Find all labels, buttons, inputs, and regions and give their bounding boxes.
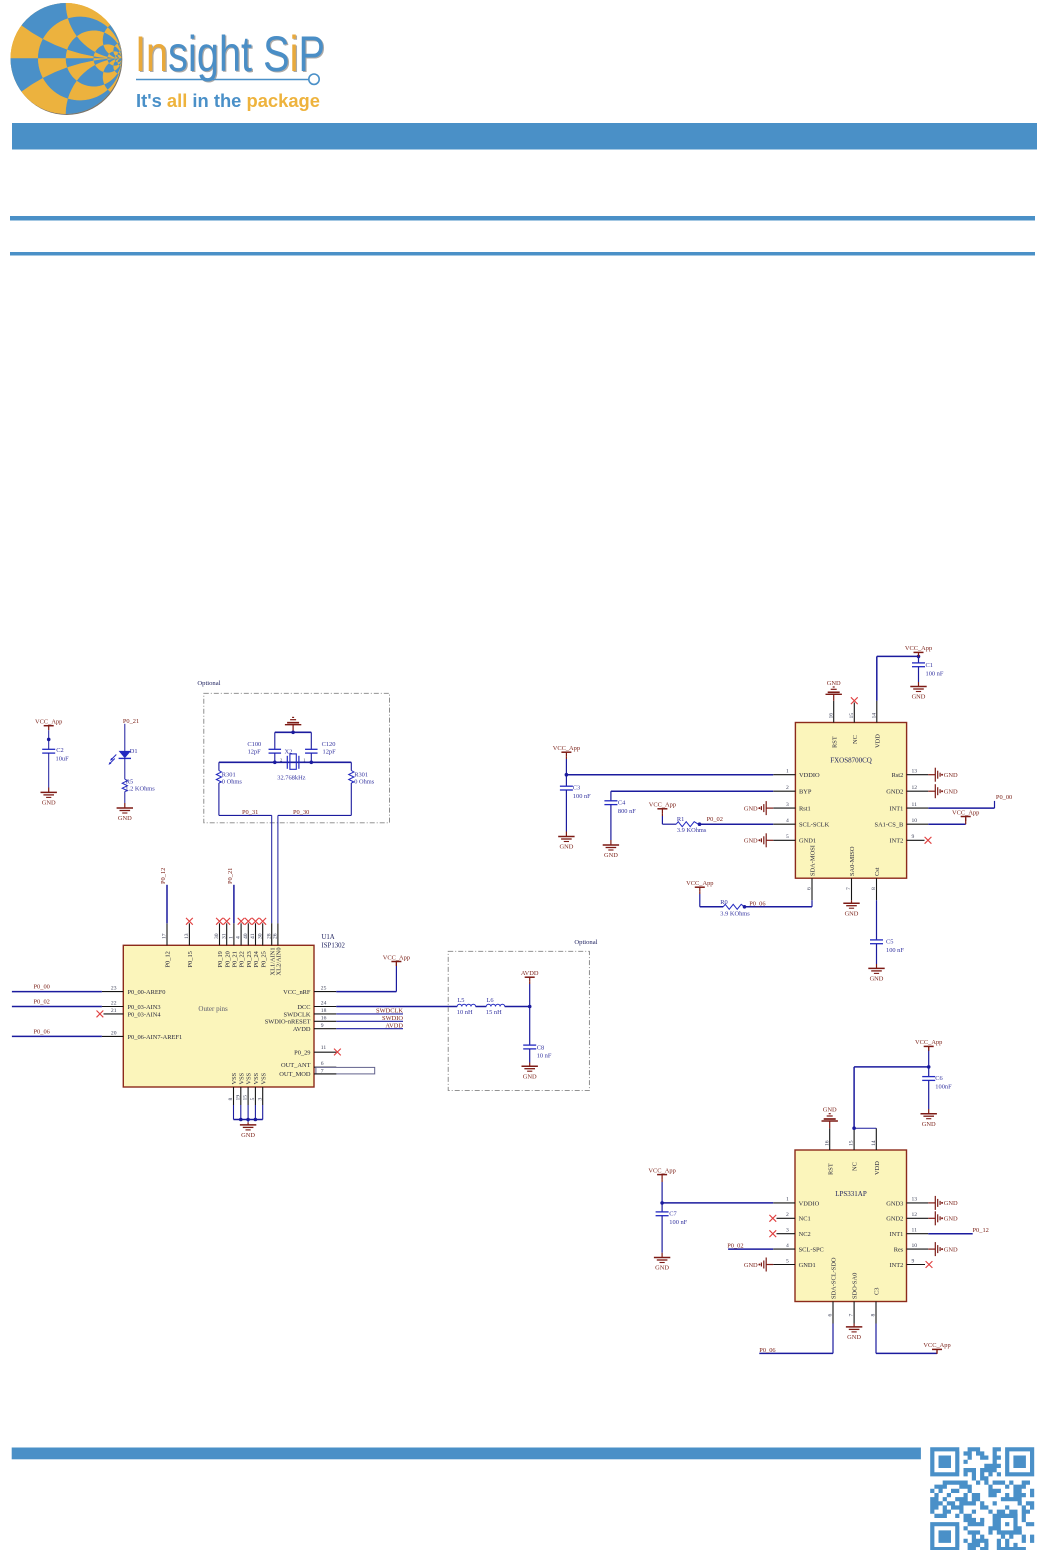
wire R1 to SCL-SCLK (698, 823, 773, 825)
ground sideways right (LPS GND2) (928, 1217, 935, 1219)
wire CS to VCC_App (875, 1324, 877, 1354)
svg-text:VCC_App: VCC_App (553, 745, 580, 752)
svg-text:3: 3 (786, 1228, 789, 1234)
FXOS pin 16 RST (833, 701, 835, 723)
svg-text:VCC_App: VCC_App (649, 802, 676, 809)
wire VCC_App to C2 (48, 730, 50, 749)
FXOS pin 6 SDA-MOSI (811, 878, 813, 900)
wire SA1-CS_B to VCC_App (928, 823, 965, 825)
wire crystal top rail (275, 731, 312, 733)
wire P0_21 to D1 (124, 724, 126, 751)
wire net SWDIO (336, 1020, 403, 1022)
op-amp U1A ISP1302 body (123, 945, 314, 1087)
svg-text:VDDIO: VDDIO (799, 1200, 820, 1207)
ground sideways right (GND3) (928, 1202, 935, 1204)
svg-text:17: 17 (162, 933, 168, 939)
inductor L5 (457, 1004, 475, 1006)
svg-text:13: 13 (912, 1197, 918, 1203)
svg-text:VCC_App: VCC_App (923, 1342, 950, 1349)
svg-text:15: 15 (243, 1095, 249, 1101)
FXOS pin 12 GND2 (907, 790, 929, 792)
svg-text:1: 1 (786, 769, 789, 775)
wire D1 to R5 (124, 758, 126, 779)
junction main rail left (273, 761, 277, 765)
svg-text:P0_29: P0_29 (294, 1050, 310, 1057)
svg-text:6: 6 (807, 887, 813, 890)
svg-text:OUT_ANT: OUT_ANT (281, 1062, 311, 1069)
svg-text:VCC_App: VCC_App (383, 954, 410, 961)
U1A pin 22 P0_03-AIN3 (102, 1006, 123, 1008)
QR code (930, 1447, 1034, 1550)
svg-text:GND: GND (42, 800, 56, 807)
ground GND (U1A VSS) (240, 1124, 256, 1126)
svg-text:19: 19 (235, 1095, 241, 1101)
ground flipped (RST) (826, 693, 842, 695)
wire NC up to C6 rail (853, 1067, 855, 1128)
junction R1 right (698, 822, 702, 826)
svg-text:Optional: Optional (574, 939, 597, 946)
svg-text:R301: R301 (354, 771, 368, 778)
sensor IC FXOS8700CQ body (795, 723, 906, 879)
svg-text:GND: GND (944, 1216, 958, 1223)
svg-text:GND: GND (604, 852, 618, 859)
svg-text:9: 9 (912, 1258, 915, 1264)
antenna matching rectangle (316, 1067, 375, 1074)
wire DCC to inductors (336, 1006, 457, 1008)
wire bottom rail left (P0_31) (219, 814, 272, 816)
power flag VCC_App (R0) (695, 886, 705, 888)
svg-text:32.768kHz: 32.768kHz (277, 775, 305, 782)
svg-text:3: 3 (786, 802, 789, 808)
svg-text:4: 4 (236, 936, 242, 939)
capacitor C2 (42, 748, 55, 750)
svg-text:22: 22 (111, 1001, 117, 1007)
svg-text:GND: GND (744, 805, 758, 812)
capacitor C3 (560, 785, 573, 787)
svg-text:GND: GND (241, 1132, 255, 1139)
power flag VCC_App (C3) (561, 751, 571, 753)
svg-text:P0_00-AREF0: P0_00-AREF0 (128, 989, 166, 996)
power flag AVDD (525, 976, 535, 978)
wire C2 to GND (48, 753, 50, 787)
svg-text:SWDCLK: SWDCLK (284, 1011, 311, 1018)
svg-text:R1: R1 (677, 816, 684, 823)
svg-text:AVDD: AVDD (293, 1026, 311, 1033)
svg-text:C4: C4 (618, 799, 626, 806)
ground GND (C1) (910, 686, 926, 688)
U1A top pin 30 P0_25 (262, 923, 264, 945)
wire crystal main rail (219, 761, 351, 763)
capacitor C100 (269, 748, 282, 750)
svg-text:DCC: DCC (297, 1004, 310, 1011)
wire C7 to GND (661, 1216, 663, 1253)
svg-text:30: 30 (257, 933, 263, 939)
wire VSS 15 down (247, 1105, 249, 1120)
wire net P0_02 (12, 1006, 102, 1008)
no-connect X pin 11 (334, 1049, 341, 1056)
LPS pin 14 VDD (875, 1128, 877, 1150)
ground GND (C2 branch) (41, 791, 57, 793)
svg-text:23: 23 (111, 986, 117, 992)
FXOS pin 9 INT2 (907, 839, 925, 841)
svg-text:GND: GND (944, 1200, 958, 1207)
svg-text:3.9 KOhms: 3.9 KOhms (677, 827, 707, 834)
wire VDDIO to VCC_App/C3 (566, 774, 773, 776)
svg-text:OUT_MOD: OUT_MOD (279, 1071, 311, 1078)
svg-text:P0_25: P0_25 (260, 951, 267, 967)
crystal X2 (286, 756, 288, 769)
optional dashed box (filter) (448, 951, 589, 1090)
power flag VCC_App (R1) (657, 808, 667, 810)
junction crystal top (291, 731, 295, 735)
U1A pin 6 OUT_ANT (314, 1066, 336, 1068)
svg-text:C1: C1 (926, 662, 933, 669)
capacitor C1 (912, 662, 925, 664)
svg-text:INT1: INT1 (889, 806, 903, 813)
wire top rail to C120 (310, 732, 312, 749)
U1A pin 11 P0_29 (314, 1051, 336, 1053)
svg-text:VCC_nRF: VCC_nRF (283, 989, 311, 996)
svg-text:SDA-MOSI: SDA-MOSI (810, 845, 817, 876)
svg-text:P0_12: P0_12 (165, 951, 172, 967)
ground sideways right (GND2) (928, 790, 935, 792)
U1A top pin 31 P0_20 (226, 923, 228, 945)
svg-text:8: 8 (871, 887, 877, 890)
wire net P0_00 (12, 991, 102, 993)
svg-text:11: 11 (321, 1045, 327, 1051)
footer blue bar (12, 1448, 921, 1460)
svg-text:10 nH: 10 nH (457, 1009, 473, 1016)
svg-text:P0_06: P0_06 (749, 901, 765, 908)
svg-text:X2: X2 (285, 749, 293, 756)
FXOS pin 1 VDDIO (773, 774, 795, 776)
svg-text:P0_21: P0_21 (232, 951, 239, 967)
svg-text:8: 8 (228, 1098, 234, 1101)
inductor L6 (486, 1004, 504, 1006)
FXOS pin 10 SA1-CS_B (907, 823, 929, 825)
U1A pin 9 AVDD (314, 1028, 336, 1030)
svg-text:VDD: VDD (874, 734, 881, 748)
wire VSS 8 down (233, 1105, 235, 1120)
U1A bottom pin 19 VSS (240, 1087, 242, 1105)
junction VSS 2 (246, 1118, 250, 1122)
svg-text:VSS: VSS (238, 1072, 245, 1084)
svg-text:30: 30 (214, 933, 220, 939)
svg-text:P0_00: P0_00 (996, 794, 1012, 801)
LPS pin 2 NC1 (777, 1217, 796, 1219)
svg-text:VCC_App: VCC_App (952, 809, 979, 816)
U1A bottom pin 3 VSS (262, 1087, 264, 1105)
wire junction to C3 (565, 775, 567, 787)
U1A pin 20 P0_06-AIN7-AREF1 (102, 1035, 123, 1037)
svg-text:C3: C3 (573, 785, 580, 792)
wire P0_12 up (166, 885, 168, 924)
wire VCC_App down to C6 rail (928, 1046, 930, 1049)
svg-text:8: 8 (871, 1314, 877, 1317)
svg-text:P0_30: P0_30 (293, 809, 309, 816)
no-connect X (NC2) (769, 1230, 776, 1237)
svg-text:SCL-SCLK: SCL-SCLK (799, 822, 830, 829)
svg-text:VCC_App: VCC_App (905, 645, 932, 652)
LPS pin 16 RST (829, 1128, 831, 1150)
resistor R1 (676, 822, 698, 827)
logo underline end circle (309, 74, 319, 84)
svg-text:D1: D1 (130, 748, 138, 755)
svg-text:100 nF: 100 nF (926, 671, 944, 678)
ground sideways (Rst1) (766, 807, 773, 809)
svg-text:INT2: INT2 (889, 838, 903, 845)
svg-text:Res: Res (894, 1247, 904, 1254)
FXOS pin 13 Rst2 (907, 774, 929, 776)
svg-text:SWDIO: SWDIO (382, 1015, 403, 1022)
wire C5 to GND (876, 944, 878, 964)
LPS pin 6 SDA-SCL-SDO (832, 1302, 834, 1324)
svg-text:GND: GND (847, 1334, 861, 1341)
svg-text:P0_02: P0_02 (707, 816, 723, 823)
FXOS pin 7 SA0-MISO (851, 878, 853, 900)
svg-text:P0_06-AIN7-AREF1: P0_06-AIN7-AREF1 (128, 1034, 183, 1041)
wire junction to C1 (918, 656, 920, 663)
svg-text:RST: RST (827, 1163, 834, 1175)
LPS pin 8 CS (875, 1302, 877, 1324)
wire VSS bus to GND (247, 1120, 249, 1123)
svg-text:10: 10 (912, 1243, 918, 1249)
U1A top pin 1 P0_21 (233, 923, 235, 945)
FXOS pin 8 Cst (876, 878, 878, 900)
svg-text:BYP: BYP (799, 789, 812, 796)
svg-text:P0_03-AIN3: P0_03-AIN3 (128, 1004, 161, 1011)
svg-text:GND2: GND2 (886, 1216, 903, 1223)
svg-text:P0_24: P0_24 (253, 950, 260, 967)
wire net P0_06 (12, 1035, 102, 1037)
svg-text:100nF: 100nF (935, 1084, 952, 1091)
svg-text:12: 12 (912, 785, 918, 791)
junction C3 node (565, 773, 569, 777)
svg-text:VDDIO: VDDIO (799, 772, 820, 779)
svg-text:3.9 KOhms: 3.9 KOhms (720, 911, 750, 918)
power flag VCC_App (LPS CS) (932, 1348, 942, 1350)
svg-text:9: 9 (912, 834, 915, 840)
capacitor C120 (305, 748, 318, 750)
power flag VCC_App (C7) (657, 1174, 667, 1176)
LPS pin 7 SDO-SA0 (853, 1302, 855, 1324)
svg-text:P0_12: P0_12 (973, 1227, 989, 1234)
resistor R301 right (350, 762, 352, 770)
wire XL2 column down to U1A (277, 815, 279, 923)
svg-text:R301: R301 (222, 771, 236, 778)
junction AVDD node (528, 1005, 532, 1009)
svg-text:1: 1 (229, 936, 235, 939)
svg-text:GND: GND (944, 789, 958, 796)
U1A top pin 17 P0_12 (166, 923, 168, 945)
header rule line 2 (10, 252, 1035, 256)
svg-text:GND3: GND3 (886, 1200, 903, 1207)
svg-text:GND: GND (523, 1073, 537, 1080)
FXOS pin 15 NC (853, 703, 855, 723)
U1A pin 25 VCC_nRF (314, 991, 336, 993)
wire R5 to GND (124, 792, 126, 804)
svg-text:GND: GND (827, 680, 841, 687)
svg-text:P0_15: P0_15 (187, 951, 194, 967)
svg-text:25: 25 (321, 986, 327, 992)
svg-text:INT1: INT1 (889, 1231, 903, 1238)
svg-text:VSS: VSS (246, 1072, 253, 1084)
wire VDD up and right to C1 (876, 656, 878, 700)
svg-text:10 nF: 10 nF (537, 1053, 552, 1060)
svg-text:GND: GND (944, 772, 958, 779)
svg-text:P0_22: P0_22 (239, 951, 246, 967)
svg-text:VCC_App: VCC_App (648, 1167, 675, 1174)
svg-text:3: 3 (257, 1098, 263, 1101)
svg-text:6: 6 (321, 1061, 324, 1067)
svg-text:800 nF: 800 nF (618, 808, 636, 815)
ground GND (C3) (558, 836, 574, 838)
wire C6 to GND (928, 1080, 930, 1109)
svg-text:Outer pins: Outer pins (198, 1005, 228, 1013)
svg-text:SA0-MISO: SA0-MISO (849, 846, 856, 876)
U1A pin 16 SWDIO-nRESET (314, 1020, 336, 1022)
junction C7 node (660, 1201, 664, 1205)
svg-text:P0_06: P0_06 (759, 1347, 775, 1354)
svg-text:41: 41 (250, 933, 256, 939)
U1A pin 23 P0_00-AREF0 (102, 991, 123, 993)
junction R0 right (743, 905, 747, 909)
capacitor C7 (656, 1211, 669, 1213)
svg-text:5: 5 (250, 1098, 256, 1101)
svg-text:P0_31: P0_31 (242, 809, 258, 816)
resistor R301 left (218, 762, 220, 770)
svg-text:P0_02: P0_02 (34, 999, 50, 1006)
svg-text:GND: GND (845, 910, 859, 917)
svg-text:21: 21 (111, 1008, 117, 1014)
U1A pin 24 DCC (314, 1006, 336, 1008)
svg-text:VCC_App: VCC_App (686, 880, 713, 887)
svg-text:GND1: GND1 (799, 838, 816, 845)
svg-text:7: 7 (321, 1068, 324, 1074)
power flag VCC_App (C2 branch) (44, 725, 54, 727)
wire L5 to L6 (476, 1006, 487, 1008)
wire C8 to GND (529, 1049, 531, 1063)
svg-text:VCC_App: VCC_App (35, 719, 62, 726)
no-connect X P0_23 (245, 918, 252, 925)
svg-text:NC: NC (852, 735, 859, 744)
svg-text:GND: GND (922, 1121, 936, 1128)
svg-text:13: 13 (184, 933, 190, 939)
svg-text:XL2/AIN0: XL2/AIN0 (276, 947, 283, 975)
svg-text:P0_12: P0_12 (160, 868, 167, 884)
svg-text:GND: GND (944, 1246, 958, 1253)
svg-text:P0_02: P0_02 (727, 1242, 743, 1249)
wire net P0_02 (LPS) (728, 1248, 773, 1250)
svg-text:7: 7 (849, 1314, 855, 1317)
svg-text:Rst1: Rst1 (799, 806, 811, 813)
no-connect X P0_22 (238, 918, 245, 925)
ground GND (LED branch) (117, 807, 133, 809)
svg-text:15: 15 (849, 1140, 855, 1146)
svg-text:11: 11 (912, 802, 918, 808)
svg-text:SCL-SPC: SCL-SPC (799, 1247, 824, 1254)
wire C3 to GND (565, 790, 567, 832)
svg-text:1.2 KOhms: 1.2 KOhms (125, 785, 155, 792)
wire L6 to junction (505, 1006, 530, 1008)
svg-text:100 nF: 100 nF (669, 1219, 687, 1226)
wire junction to C8 (529, 1007, 531, 1046)
ground flipped (LPS RST) (822, 1120, 838, 1122)
svg-text:C6: C6 (935, 1075, 942, 1082)
U1A top pin 4 P0_22 (240, 923, 242, 945)
svg-text:15: 15 (849, 713, 855, 719)
wire bottom rail right (P0_30) (278, 814, 351, 816)
no-connect X pin 21 (97, 1011, 104, 1018)
svg-text:20: 20 (111, 1031, 117, 1037)
wire INT1 (LPS) net P0_12 (928, 1233, 972, 1235)
svg-text:C100: C100 (247, 741, 261, 748)
svg-text:18: 18 (321, 1008, 327, 1014)
svg-text:P0_06: P0_06 (34, 1029, 50, 1036)
junction C6 node (927, 1065, 931, 1069)
logo smith chart shadow (11, 4, 122, 115)
svg-text:11: 11 (912, 1228, 918, 1234)
no-connect X P0_24 (252, 918, 259, 925)
svg-text:P0_23: P0_23 (246, 951, 253, 967)
wire top rail to C100 (274, 732, 276, 749)
sensor IC LPS331AP body (795, 1150, 907, 1302)
svg-text:VCC_App: VCC_App (915, 1039, 942, 1046)
svg-text:NC1: NC1 (799, 1216, 811, 1223)
wire VCC_App down to VDDIO wire (565, 757, 567, 759)
junction C1 node (917, 655, 921, 659)
LPS pin 15 NC (853, 1128, 855, 1150)
svg-text:12pF: 12pF (248, 748, 262, 755)
wire R301 left to bottom rail (218, 783, 220, 815)
no-connect X P0_20 (223, 918, 230, 925)
power flag VCC_App (VCC_nRF) (391, 961, 401, 963)
FXOS pin 5 GND1 (773, 839, 795, 841)
svg-text:26: 26 (273, 933, 279, 939)
logo smith chart disc (11, 3, 122, 114)
svg-text:Rst2: Rst2 (892, 772, 904, 779)
svg-text:P0_00: P0_00 (34, 984, 50, 991)
svg-text:GND2: GND2 (886, 789, 903, 796)
svg-text:L6: L6 (487, 997, 494, 1004)
wire C4 to GND (610, 805, 612, 840)
capacitor C8 (523, 1044, 536, 1046)
no-connect X (LPS INT2) (926, 1261, 933, 1268)
wire SDA down to P0_06 rail (832, 1324, 834, 1354)
svg-text:GND: GND (870, 976, 884, 983)
LPS pin 5 GND1 (773, 1264, 795, 1266)
LPS pin 13 GND3 (907, 1202, 929, 1204)
wire C120 to main rail (310, 753, 312, 762)
svg-text:28: 28 (266, 933, 272, 939)
resistor R0 (723, 904, 744, 909)
svg-text:100 nF: 100 nF (886, 947, 904, 954)
svg-text:GND: GND (744, 838, 758, 845)
svg-text:5: 5 (786, 1258, 789, 1264)
svg-text:SWDIO-nRESET: SWDIO-nRESET (265, 1019, 311, 1026)
LED D1 (119, 751, 131, 758)
svg-text:GND: GND (655, 1265, 669, 1272)
LPS pin 3 NC2 (777, 1233, 796, 1235)
optional dashed box (crystal) (204, 693, 390, 823)
svg-text:40: 40 (243, 933, 249, 939)
capacitor C5 (870, 939, 883, 941)
ground sideways right (Res) (928, 1248, 935, 1250)
svg-text:10: 10 (912, 818, 918, 824)
svg-text:15 nH: 15 nH (486, 1009, 502, 1016)
FXOS pin 3 Rst1 (773, 807, 795, 809)
svg-text:INT2: INT2 (889, 1262, 903, 1269)
